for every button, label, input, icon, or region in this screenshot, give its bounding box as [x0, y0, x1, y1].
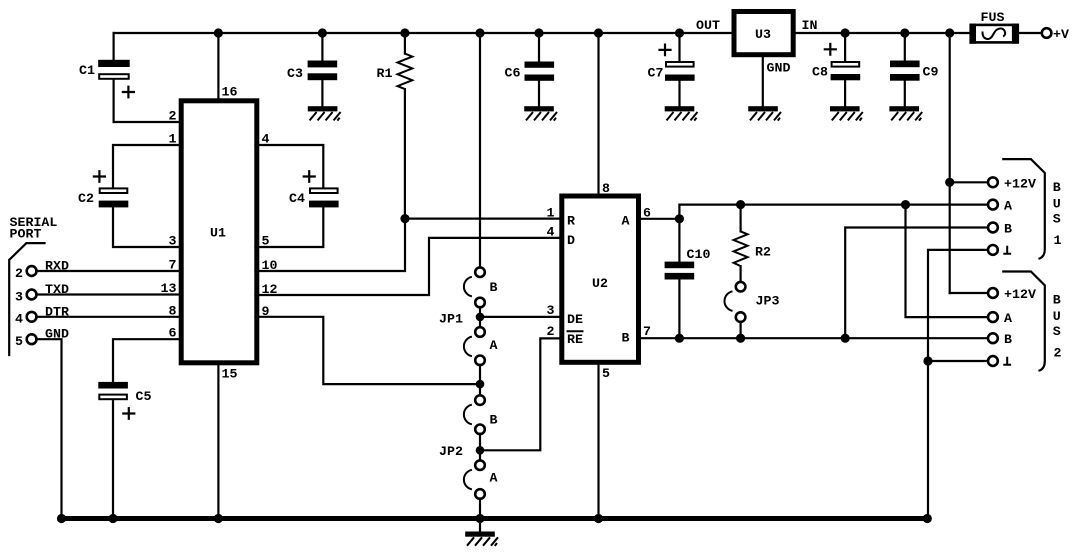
- node: C7 junction: [675, 28, 684, 37]
- node: BUS2 A branch junction: [901, 200, 910, 209]
- resistor R1: [377, 33, 413, 219]
- svg-text:C9: C9: [923, 65, 939, 80]
- svg-text:JP3: JP3: [756, 294, 780, 309]
- svg-text:B: B: [490, 413, 498, 428]
- svg-text:D: D: [567, 233, 575, 248]
- svg-text:OUT: OUT: [696, 18, 720, 33]
- wire: rail to U2 pin 8: [597, 33, 599, 194]
- wire: C1 to U1 pin 2: [114, 121, 181, 123]
- svg-text:U1: U1: [210, 226, 226, 241]
- IC U1: [181, 101, 257, 363]
- wire: U1 pin 10 to R junction: [256, 219, 406, 271]
- resistor R2: [734, 205, 771, 283]
- svg-text:B: B: [1053, 293, 1061, 308]
- wire: U1 pin 12 to U2 pin 4 D: [256, 238, 562, 295]
- node: U1 pin 15 bus junction: [214, 514, 223, 523]
- node: pin 16 junction: [214, 28, 223, 37]
- svg-text:A: A: [1004, 199, 1012, 214]
- svg-text:5: 5: [602, 366, 610, 381]
- svg-text:GND: GND: [767, 61, 791, 76]
- capacitor C10: [665, 219, 711, 338]
- terminal BUS2 B: [988, 332, 1012, 347]
- wire: BUS2 earth stub: [928, 360, 988, 362]
- terminal BUS1 earth: [988, 245, 1011, 255]
- svg-text:A: A: [1004, 311, 1012, 326]
- wire: U3 GND lead: [762, 55, 764, 106]
- wire: U1 pin 9 to JP junction: [256, 317, 481, 384]
- terminal BUS2 +12V: [988, 287, 1036, 302]
- svg-text:RE: RE: [567, 332, 583, 347]
- node: C8 junction: [841, 28, 850, 37]
- capacitor C2: [78, 145, 181, 247]
- svg-text:JP2: JP2: [439, 444, 463, 459]
- svg-text:3: 3: [547, 303, 555, 318]
- svg-text:+V: +V: [1053, 27, 1069, 42]
- node: JP3 bottom junction: [736, 334, 745, 343]
- wire: +V top rail: [114, 32, 971, 34]
- terminal BUS1 A: [988, 199, 1012, 214]
- IC U2: [562, 196, 639, 362]
- svg-text:C6: C6: [505, 66, 521, 81]
- node: R1 junction top: [400, 28, 409, 37]
- terminal BUS1 +12V: [988, 176, 1036, 191]
- svg-text:C7: C7: [648, 66, 664, 81]
- svg-text:S: S: [1053, 324, 1061, 339]
- svg-text:C8: C8: [812, 65, 828, 80]
- wire: earth branch down to bus end: [926, 361, 929, 519]
- wire: U2 pin 6 A stub: [639, 218, 679, 220]
- svg-text:16: 16: [222, 85, 238, 100]
- svg-text:2: 2: [169, 109, 177, 124]
- svg-text:1: 1: [547, 205, 555, 220]
- wire: B net from U2 pin 7 to BUS2 B: [639, 337, 988, 339]
- svg-text:7: 7: [643, 324, 651, 339]
- ground under C9: [889, 106, 922, 120]
- node: BUS1 B branch junction: [841, 334, 850, 343]
- capacitor C5: [98, 382, 151, 519]
- terminal BUS2 A: [988, 311, 1012, 326]
- wire: JP1 to U2 pin 3 DE: [480, 316, 561, 318]
- regulator U3: [734, 12, 793, 55]
- svg-text:A: A: [622, 214, 630, 229]
- svg-text:R: R: [567, 214, 575, 229]
- svg-text:U: U: [1053, 309, 1061, 324]
- wire: BUS2 A branch: [906, 205, 989, 318]
- wire: U1 pin 15 to bus: [217, 363, 219, 519]
- jumper JP2: [439, 395, 498, 518]
- svg-text:R1: R1: [377, 66, 393, 81]
- svg-text:PORT: PORT: [10, 227, 42, 242]
- node: U2 pin 5 bus junction: [594, 514, 603, 523]
- serial port bracket: [9, 243, 44, 355]
- svg-text:FUS: FUS: [981, 10, 1005, 25]
- jumper JP3: [724, 282, 779, 338]
- terminal serial pin 3: [15, 289, 36, 304]
- wire: BUS1 +12V stub: [950, 181, 989, 183]
- node: bus left end junction: [57, 514, 66, 523]
- jumper JP1: [439, 267, 498, 395]
- bracket BUS 2: [1003, 272, 1061, 371]
- svg-text:U2: U2: [592, 276, 608, 291]
- svg-text:A: A: [490, 471, 498, 486]
- svg-text:R2: R2: [755, 245, 771, 260]
- wire: rail to U1 pin 16: [217, 33, 219, 98]
- node: +12V BUS1 junction: [945, 178, 954, 187]
- svg-text:+12V: +12V: [1004, 176, 1036, 191]
- capacitor C1: [79, 33, 134, 122]
- wire: JP2 to U2 pin 2 RE: [480, 338, 561, 450]
- ground under C7: [665, 106, 698, 120]
- wire: +12V vertical branch: [949, 33, 951, 293]
- capacitor C8: [812, 33, 860, 106]
- wire: rail down to JP1 B: [479, 33, 481, 268]
- node: +12V branch junction: [945, 28, 954, 37]
- node: U2 pin 8 junction: [594, 28, 603, 37]
- terminal serial pin 2: [15, 266, 36, 281]
- node: BUS2 earth junction: [923, 356, 932, 365]
- fuse FUS: [970, 10, 1019, 44]
- svg-text:IN: IN: [802, 18, 818, 33]
- svg-text:4: 4: [15, 312, 23, 327]
- capacitor C9: [890, 33, 938, 106]
- ground under U3: [748, 106, 781, 120]
- svg-text:+12V: +12V: [1004, 287, 1036, 302]
- node: C6 junction: [534, 28, 543, 37]
- capacitor C7: [648, 33, 695, 106]
- terminal BUS2 earth: [988, 356, 1011, 366]
- svg-text:B: B: [1053, 180, 1061, 195]
- svg-text:C4: C4: [289, 191, 305, 206]
- ground under C3: [308, 106, 341, 120]
- node: A net junction at C10: [675, 214, 684, 223]
- svg-text:B: B: [1004, 222, 1012, 237]
- node: R2 top junction: [736, 200, 745, 209]
- svg-text:15: 15: [222, 367, 238, 382]
- bracket BUS 1: [1003, 159, 1061, 258]
- svg-text:1: 1: [1054, 233, 1062, 248]
- wire: R junction to U2 pin 1 R: [405, 218, 561, 220]
- svg-text:A: A: [490, 338, 498, 353]
- pin label RE with overline: [567, 331, 584, 347]
- svg-text:C1: C1: [79, 63, 95, 78]
- svg-text:U3: U3: [755, 27, 771, 42]
- ground under C6: [524, 106, 557, 120]
- node: pin9/jumper junction: [476, 380, 485, 389]
- node: C9 junction: [900, 28, 909, 37]
- svg-text:U: U: [1053, 197, 1061, 212]
- node: bus right end junction: [923, 514, 932, 523]
- wire: bottom ground bus: [62, 516, 928, 521]
- wire: BUS1 B branch: [845, 228, 988, 339]
- svg-text:2: 2: [547, 324, 555, 339]
- node: jumper ground junction: [475, 514, 484, 523]
- wire: RXD to U1 pin 7: [36, 270, 181, 272]
- node: C3 junction: [318, 28, 327, 37]
- wire: U2 pin 5 to bus: [597, 363, 599, 519]
- wire: A net riser and horizontal to BUS1 A: [679, 205, 988, 219]
- node: C5 bus junction: [108, 514, 117, 523]
- ground under C8: [830, 106, 863, 120]
- wire: BUS1 earth stub: [928, 250, 988, 361]
- svg-text:JP1: JP1: [439, 312, 463, 327]
- terminal BUS1 B: [988, 222, 1012, 237]
- capacitor C6: [505, 33, 555, 106]
- wire: DTR to U1 pin 8: [36, 316, 181, 318]
- terminal serial pin 5: [15, 334, 36, 349]
- ground under bus: [479, 519, 481, 532]
- svg-text:2: 2: [15, 266, 23, 281]
- node: C10 bottom junction: [675, 334, 684, 343]
- svg-text:5: 5: [15, 334, 23, 349]
- svg-text:C2: C2: [78, 191, 94, 206]
- svg-text:2: 2: [1054, 346, 1062, 361]
- svg-text:C3: C3: [287, 66, 303, 81]
- svg-text:4: 4: [547, 225, 555, 240]
- svg-text:DE: DE: [567, 312, 583, 327]
- capacitor C3: [287, 33, 337, 106]
- wire: U1 pin 6 to C5: [113, 339, 181, 382]
- capacitor C4: [256, 145, 339, 247]
- wire: TXD to U1 pin 13: [36, 293, 181, 295]
- svg-text:C5: C5: [136, 389, 152, 404]
- svg-text:B: B: [622, 331, 630, 346]
- node: R1/pin10/R junction: [400, 214, 409, 223]
- svg-text:8: 8: [602, 181, 610, 196]
- svg-text:B: B: [1004, 332, 1012, 347]
- wire: serial GND down to bus: [36, 339, 61, 518]
- node: JP1 rail junction: [475, 28, 484, 37]
- terminal +V: [1042, 27, 1069, 42]
- svg-text:3: 3: [15, 289, 23, 304]
- svg-text:S: S: [1053, 212, 1061, 227]
- terminal serial pin 4: [15, 312, 36, 327]
- svg-text:B: B: [490, 280, 498, 295]
- svg-text:C10: C10: [687, 247, 711, 262]
- wire: BUS2 +12V stub: [950, 292, 989, 294]
- wire: rail from fuse to +V terminal: [1018, 32, 1042, 34]
